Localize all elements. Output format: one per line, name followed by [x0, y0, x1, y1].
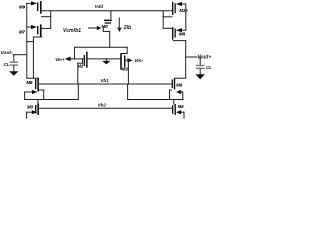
- transistor M9: [19, 1, 51, 17]
- wire: pair center line: [88, 58, 121, 60]
- wire: right output spine: [185, 41, 187, 79]
- wire: M1 drain path: [82, 59, 84, 63]
- transistor M5: [25, 78, 39, 95]
- svg-text:Vout-: Vout-: [1, 50, 13, 56]
- svg-text:2Ib: 2Ib: [123, 25, 131, 31]
- svg-text:CL: CL: [4, 62, 10, 67]
- transistor M4: [172, 100, 184, 116]
- wire: Vout- stub: [13, 54, 27, 56]
- wire: M2 drain path: [127, 60, 129, 84]
- ground (center stub): [105, 59, 107, 61]
- svg-text:M5: M5: [26, 80, 33, 85]
- transistor M3: [27, 100, 39, 116]
- wire: M5 source wrap: [24, 92, 26, 100]
- svg-text:Vout+: Vout+: [197, 55, 211, 61]
- wire: left gate-column vertical: [26, 3, 28, 78]
- current arrow 2Ib: [117, 18, 131, 32]
- svg-text:Vb1: Vb1: [100, 78, 109, 83]
- svg-text:Vin-: Vin-: [134, 58, 143, 64]
- transistor M10: [163, 2, 188, 17]
- transistor M8: [163, 27, 186, 41]
- ground (left): [9, 71, 18, 76]
- Vdd rail: [42, 10, 172, 12]
- svg-text:M9: M9: [19, 4, 26, 9]
- transistor M6: [172, 78, 186, 94]
- svg-text:M3: M3: [27, 105, 33, 110]
- wire: M5 source right exit: [39, 89, 44, 91]
- transistor M1: [65, 52, 88, 69]
- svg-text:M10: M10: [179, 8, 188, 13]
- svg-text:Vb2: Vb2: [98, 103, 107, 108]
- transistor M2: [120, 54, 133, 72]
- svg-text:Vdd: Vdd: [95, 4, 104, 9]
- wire: M6 source left exit: [170, 89, 172, 91]
- svg-text:M0: M0: [102, 24, 109, 29]
- ground (right): [196, 74, 205, 79]
- Vb1 rail: [39, 83, 172, 85]
- Vb2 rail: [39, 107, 172, 109]
- wire: M4 source stub: [183, 112, 185, 118]
- wire: M9 drain to M7 source: [50, 11, 52, 29]
- capacitor CL (left): [4, 55, 19, 71]
- wire: left output spine: [32, 37, 34, 78]
- wire: Vout+ stub: [186, 56, 197, 58]
- wire: gate-column to spine bridge: [27, 41, 34, 43]
- svg-text:M6: M6: [176, 82, 183, 87]
- transistor M7: [19, 24, 51, 37]
- wire: M10/M8 gate tie: [185, 4, 187, 30]
- transistor M0 (tail): [89, 11, 112, 47]
- wire: differential pair top line: [75, 46, 128, 48]
- svg-text:CL: CL: [206, 65, 212, 70]
- wire: M6 source wrap: [182, 92, 184, 100]
- wire: M3 source stub: [26, 112, 28, 118]
- svg-text:M7: M7: [19, 29, 26, 34]
- svg-text:M4: M4: [178, 104, 184, 109]
- svg-text:Vin+: Vin+: [55, 57, 65, 62]
- svg-text:M2: M2: [122, 67, 129, 72]
- wire: M1 drain / M5 source / M3 drain line: [25, 99, 79, 101]
- wire: M2 drain / M6 source / M4 drain line: [128, 99, 183, 101]
- svg-text:M8: M8: [179, 32, 186, 37]
- wire: M10 drain to M8 source: [162, 11, 164, 29]
- svg-text:Vcmfb1: Vcmfb1: [63, 28, 81, 34]
- capacitor CL (right): [196, 57, 212, 74]
